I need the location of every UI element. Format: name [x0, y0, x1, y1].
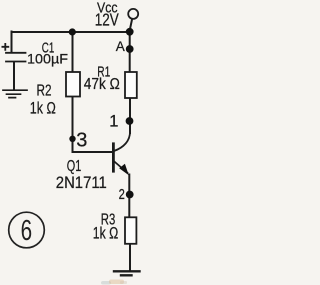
- wire: R2 bottom to corner then right to Q1 base: [73, 96, 113, 152]
- resistor R3 body: [125, 217, 136, 244]
- junction dot: rail to right branch: [126, 28, 134, 36]
- wire: right rail junction down to R1: [129, 32, 131, 72]
- svg-text:R2: R2: [37, 82, 52, 99]
- svg-text:2N1711: 2N1711: [56, 174, 107, 192]
- wire: emitter node down through node 2 to R3: [128, 175, 130, 218]
- ground symbol (left, under C1): [3, 90, 27, 97]
- transistor Q1 emitter lead: [115, 162, 128, 173]
- power terminal circle (Vcc): [128, 9, 138, 19]
- svg-text:1: 1: [109, 112, 118, 130]
- wire: Vcc terminal lead to rail junction: [130, 20, 132, 30]
- wire: R3 bottom to ground: [129, 244, 131, 271]
- svg-text:A: A: [116, 38, 126, 54]
- transistor Q1 base bar: [112, 144, 115, 171]
- svg-text:1k Ω: 1k Ω: [93, 224, 119, 242]
- test point 1 dot: [126, 117, 134, 125]
- resistor R1 body: [125, 72, 137, 98]
- wire: C1 bottom plate to ground: [13, 62, 15, 90]
- svg-text:100µF: 100µF: [27, 52, 68, 67]
- test point 3 dot: [69, 136, 75, 142]
- capacitor C1 plates: [6, 53, 26, 62]
- svg-text:47k Ω: 47k Ω: [84, 76, 120, 93]
- polarity + of C1: [2, 43, 10, 51]
- svg-text:3: 3: [76, 129, 87, 151]
- transistor Q1 collector lead: [114, 132, 130, 151]
- svg-text:12V: 12V: [95, 9, 119, 29]
- svg-text:2: 2: [119, 186, 125, 203]
- wire: rail corner down to C1 top plate: [11, 32, 13, 53]
- svg-text:6: 6: [21, 215, 32, 247]
- wire: rail junction down to R2: [72, 32, 74, 72]
- svg-text:Q1: Q1: [67, 158, 82, 175]
- figure number circle 6: [9, 212, 45, 248]
- resistor R2 body: [66, 72, 80, 97]
- wire: R1 bottom to collector bend: [129, 98, 131, 133]
- node A dot: [126, 45, 134, 53]
- junction dot: rail to R2: [69, 28, 76, 35]
- test point 2 dot: [126, 191, 134, 199]
- transistor Q1 emitter arrowhead: [119, 164, 129, 176]
- paper background: [0, 0, 142, 285]
- ground symbol (right, under R3): [114, 271, 140, 275]
- wire: top supply rail: [12, 31, 131, 33]
- scan artifact: torn edge smudge bottom right: [101, 280, 127, 285]
- svg-text:1k Ω: 1k Ω: [30, 98, 56, 117]
